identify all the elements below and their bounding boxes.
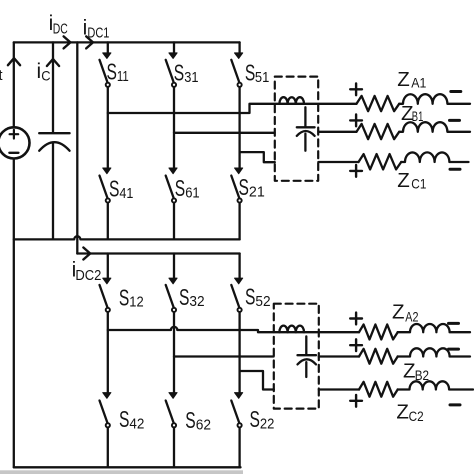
svg-text:Z: Z [396,401,409,424]
wire inverter2 top rail [77,252,239,254]
label ZB1 [401,102,423,125]
svg-text:Z: Z [397,68,410,91]
arrow iDC1 right chevron on top rail [86,36,93,48]
switch S51 [231,42,242,87]
label minus C2 [450,403,460,406]
label iC [37,60,51,84]
label ZA2 [392,300,419,324]
label plus A2 [350,313,362,325]
switch S12 [100,254,111,313]
svg-text:S: S [179,284,189,310]
filter box 1 dashed [275,77,318,181]
wire left rail upper (source top lead) [13,42,15,127]
label S31 [174,59,199,86]
svg-text:41: 41 [119,186,133,202]
switch S11 [100,42,111,87]
svg-text:S: S [119,406,129,432]
label S52 [245,284,271,311]
svg-text:S: S [109,176,119,202]
label S11 [107,58,129,85]
inductor filter1 L [279,97,304,104]
label S62 [185,407,211,434]
switch S41 [100,168,111,239]
label S22 [250,406,275,433]
svg-text:S: S [245,284,255,310]
svg-text:DC2: DC2 [75,267,101,284]
wire phase C1 from leg3 with jog down into filter [240,152,275,162]
label S42 [119,406,144,433]
filter box 2 dashed [274,304,319,409]
label minus A2 [449,322,459,325]
label minus A1 [451,90,461,93]
svg-text:Z: Z [403,360,416,383]
label minus B2 [449,348,459,351]
svg-text:S: S [107,58,117,84]
label iDC1 [83,17,110,42]
wire leg1 mid (between S11 and S41) [107,87,109,168]
wire phase B2 from leg2 to filter [174,355,274,357]
label ZB2 [403,360,429,384]
inductor ZA2 [398,324,470,332]
svg-text:52: 52 [255,294,270,310]
arrow battery current up chevron on left rail [8,58,20,65]
arrow iDC right chevron on top rail [64,36,71,48]
label ZC2 [396,401,423,424]
wire leg1 mid inverter2 [107,312,109,392]
svg-text:31: 31 [184,70,198,86]
switch S52 [231,254,242,313]
inductor filter2 L [279,326,304,333]
wire leg3 mid (between S51 and S21) [238,87,240,168]
svg-text:21: 21 [249,184,265,200]
label source minus [9,152,18,154]
svg-text:62: 62 [196,418,211,434]
svg-text:B1: B1 [412,108,424,124]
switch S21 [231,168,242,239]
svg-text:C2: C2 [409,408,424,424]
svg-text:11: 11 [117,69,129,85]
label S51 [245,60,269,87]
resistor ZB2 [359,349,398,364]
label minus B1 [450,119,460,122]
switch S22 [231,393,242,468]
capacitor filter1 C [297,107,315,150]
svg-text:A2: A2 [405,308,418,324]
svg-text:32: 32 [189,294,204,310]
svg-text:61: 61 [185,186,200,202]
wire leg3 mid inverter2 [238,312,240,392]
svg-text:DC: DC [53,21,68,38]
inductor ZC2 [398,381,473,389]
svg-text:22: 22 [260,417,275,433]
svg-text:A1: A1 [411,75,426,91]
svg-text:S: S [175,175,185,201]
switch S61 [166,168,177,239]
switch S31 [166,42,177,87]
resistor ZC2 [359,382,398,397]
capacitor C plates [39,133,69,151]
label S21 [239,174,265,201]
wire phase A2 from leg1 with hop and jog into filter [108,327,359,332]
inductor ZC1 [401,152,468,162]
label S12 [119,284,144,310]
svg-text:S: S [245,60,255,86]
resistor ZA2 [359,325,398,340]
resistor ZA1 [357,96,400,111]
svg-text:Z: Z [392,300,405,323]
svg-text:S: S [119,284,129,310]
wire tap vertical to inverter 2 [76,42,78,253]
svg-text:t: t [0,68,3,84]
label ZC1 [397,169,426,192]
inductor ZB1 [399,122,470,132]
wire leg2 mid (between S31 and S61) [173,87,175,168]
label plus A1 [350,83,362,95]
svg-text:12: 12 [129,295,143,311]
svg-text:51: 51 [255,70,269,86]
label t (cut-off battery current subscript) [0,68,3,84]
svg-text:S: S [250,406,260,432]
wire leg2 mid inverter2 [173,312,175,392]
wire phase C2 output from filter [319,388,359,390]
svg-text:DC1: DC1 [87,25,109,42]
resistor ZC1 [359,154,402,169]
switch S42 [100,393,111,468]
arrow iDC2 right chevron [83,248,90,260]
wire phase B1 from leg2 to filter [174,132,275,134]
label S41 [109,176,133,203]
label iDC [49,12,68,38]
label iDC2 [72,259,102,285]
wire top DC rail [14,41,240,43]
label plus B2 [350,339,362,351]
capacitor filter2 C [298,336,317,377]
resistor ZB1 [357,124,400,139]
label S61 [175,175,200,202]
wire phase B2 output from filter [319,355,359,357]
inductor ZB2 [398,348,470,356]
switch S32 [166,254,177,313]
label plus C1 [350,165,362,177]
label ZA1 [397,68,426,91]
wire left rail lower (source bottom lead down to bottom rail) [13,159,15,468]
label S32 [179,284,205,310]
wire inverter2 bottom rail [14,466,241,468]
svg-text:42: 42 [129,416,144,432]
source DC current/voltage source circle [0,127,30,158]
wire phase C2 from leg3 with jog down into filter [240,371,274,390]
capacitor C bottom lead [52,143,54,240]
bottom gray border band [0,470,243,474]
svg-text:S: S [174,59,184,85]
svg-text:Z: Z [397,169,410,192]
wire inverter1 bottom rail with hop over tap [14,236,240,239]
wire phase B1 output from filter [318,131,356,133]
label minus C1 [450,168,460,171]
label plus C2 [350,395,362,407]
svg-text:C: C [41,68,50,84]
switch S62 [166,393,177,468]
label plus B1 [350,115,362,127]
inductor ZA1 [399,94,470,104]
arrow iC up chevron [47,59,59,66]
svg-text:S: S [185,407,195,433]
label source plus [10,130,19,139]
svg-text:C1: C1 [411,176,426,192]
wire phase C1 output from filter [318,161,358,163]
capacitor C dc-link top lead [52,42,54,132]
svg-text:S: S [239,174,249,200]
wire phase A1 from leg1 with jog up into filter [108,104,357,113]
